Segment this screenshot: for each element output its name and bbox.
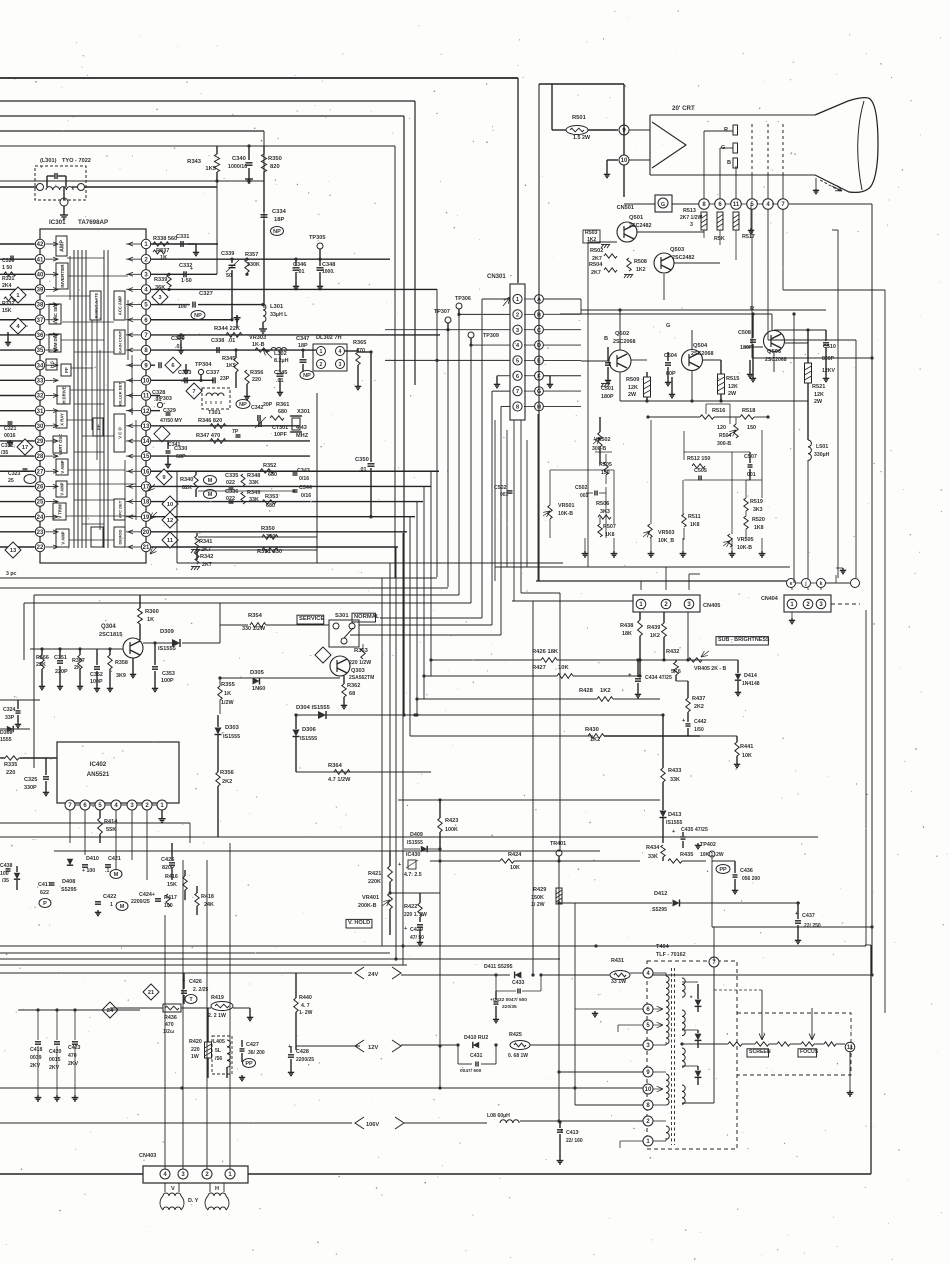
svg-text:IC430: IC430 — [406, 852, 420, 858]
svg-text:C348: C348 — [322, 262, 335, 268]
svg-text:D412: D412 — [654, 891, 667, 897]
svg-text:35: 35 — [37, 348, 44, 354]
svg-text:180P: 180P — [601, 394, 614, 400]
svg-text:C508: C508 — [738, 330, 751, 336]
svg-text:1K: 1K — [224, 691, 231, 697]
svg-text:47/ 50: 47/ 50 — [410, 935, 424, 941]
svg-text:13: 13 — [10, 548, 17, 554]
svg-text:4: 4 — [339, 349, 342, 355]
svg-text:24K: 24K — [204, 902, 214, 908]
svg-text:C504: C504 — [664, 353, 677, 359]
svg-text:C335: C335 — [225, 473, 238, 479]
svg-text:GAIN CONT: GAIN CONT — [118, 330, 123, 353]
svg-text:V C O: V C O — [118, 427, 123, 439]
svg-text:D303: D303 — [225, 725, 240, 731]
svg-text:R501: R501 — [572, 115, 587, 121]
svg-text:CN404: CN404 — [761, 596, 778, 602]
svg-text:D309: D309 — [160, 629, 175, 635]
svg-text:2KV: 2KV — [49, 1065, 60, 1071]
svg-text:D306: D306 — [302, 727, 317, 733]
svg-text:1.5 2W: 1.5 2W — [573, 135, 591, 141]
svg-text:17: 17 — [22, 445, 28, 451]
svg-text:R343: R343 — [187, 159, 202, 165]
svg-text:D411 S5295: D411 S5295 — [484, 964, 513, 970]
svg-text:C502: C502 — [575, 485, 588, 491]
svg-text:0015: 0015 — [49, 1057, 61, 1063]
svg-text:NORMAL: NORMAL — [354, 614, 380, 620]
svg-text:220K: 220K — [368, 879, 381, 885]
svg-text:32: 32 — [37, 394, 44, 400]
svg-text:SUB - BRIGHTNESS: SUB - BRIGHTNESS — [718, 637, 770, 643]
svg-text:INVERTER: INVERTER — [60, 264, 65, 288]
svg-text:D413: D413 — [668, 812, 681, 818]
svg-text:2SC2068: 2SC2068 — [613, 339, 635, 345]
svg-text:15: 15 — [143, 454, 150, 460]
svg-text:470: 470 — [68, 1053, 77, 1059]
svg-text:11: 11 — [847, 1045, 854, 1051]
svg-text:C344: C344 — [299, 485, 312, 491]
svg-text:VR303: VR303 — [249, 335, 266, 341]
svg-text:1K-B: 1K-B — [252, 342, 265, 348]
svg-text:C435 47/25: C435 47/25 — [681, 827, 708, 833]
svg-text:0/16: 0/16 — [301, 493, 311, 499]
svg-text:21: 21 — [148, 990, 155, 996]
svg-text:C505: C505 — [694, 468, 707, 474]
svg-text:1N60: 1N60 — [252, 686, 265, 692]
svg-text:100P: 100P — [161, 678, 174, 684]
svg-text:1: 1 — [110, 902, 113, 908]
svg-text:13: 13 — [143, 424, 150, 430]
svg-text:2KV: 2KV — [68, 1061, 79, 1067]
svg-text:R356: R356 — [250, 370, 263, 376]
svg-text:33K: 33K — [670, 777, 680, 783]
svg-text:C438: C438 — [0, 863, 13, 869]
svg-text:R350: R350 — [261, 526, 275, 532]
svg-text:R424: R424 — [508, 852, 522, 858]
svg-text:C413: C413 — [566, 1130, 579, 1136]
svg-text:C333: C333 — [178, 370, 191, 376]
svg-text:C433: C433 — [512, 980, 525, 986]
svg-text:R355: R355 — [221, 682, 236, 688]
svg-text:KILLER DET: KILLER DET — [118, 382, 123, 406]
svg-text:2KV: 2KV — [30, 1063, 41, 1069]
svg-text:R520: R520 — [752, 517, 765, 523]
svg-text:23: 23 — [37, 530, 44, 536]
svg-text:D305: D305 — [250, 670, 265, 676]
svg-text:220: 220 — [191, 1047, 200, 1053]
svg-text:2W: 2W — [814, 399, 823, 405]
svg-text:2K7: 2K7 — [591, 270, 601, 276]
svg-text:R439: R439 — [647, 625, 660, 631]
svg-text:25: 25 — [37, 500, 44, 506]
svg-text:C422: C422 — [103, 894, 116, 900]
svg-text:12K: 12K — [814, 392, 824, 398]
svg-text:PP: PP — [719, 867, 727, 873]
svg-text:11: 11 — [167, 538, 174, 544]
svg-text:12K: 12K — [728, 384, 738, 390]
svg-text:TLF - 70162: TLF - 70162 — [656, 952, 686, 958]
svg-text:R416: R416 — [165, 874, 178, 880]
svg-text:TP402: TP402 — [700, 842, 716, 848]
svg-text:R357: R357 — [245, 252, 258, 258]
svg-text:ACC AMP: ACC AMP — [118, 296, 123, 316]
svg-text:12K: 12K — [628, 385, 638, 391]
svg-text:R429: R429 — [533, 887, 546, 893]
svg-text:0047/ 500: 0047/ 500 — [460, 1068, 482, 1074]
svg-text:820: 820 — [270, 164, 280, 170]
svg-text:18P: 18P — [298, 343, 308, 349]
svg-text:12KV: 12KV — [822, 368, 836, 374]
svg-text:2. 2 1W: 2. 2 1W — [208, 1013, 226, 1019]
svg-text:TP309: TP309 — [483, 333, 499, 339]
svg-text:022: 022 — [226, 480, 235, 486]
svg-text:TA7698AP: TA7698AP — [78, 219, 108, 226]
svg-text:C331: C331 — [176, 234, 189, 240]
svg-text:Q501: Q501 — [629, 215, 644, 221]
svg-text:R358: R358 — [115, 660, 128, 666]
svg-text:R365: R365 — [353, 340, 366, 346]
svg-text:M: M — [114, 872, 119, 878]
svg-text:22: 22 — [37, 545, 44, 551]
svg-text:R509: R509 — [626, 377, 639, 383]
svg-text:G: G — [666, 323, 670, 329]
svg-text:L405: L405 — [213, 1039, 225, 1045]
svg-text:k: k — [820, 581, 823, 587]
svg-text:R421: R421 — [368, 871, 381, 877]
svg-text:4. 7: 4. 7 — [301, 1003, 310, 1009]
svg-text:C336: C336 — [225, 489, 238, 495]
svg-text:0016: 0016 — [4, 433, 16, 439]
svg-text:100K: 100K — [445, 827, 458, 833]
svg-text:e: e — [790, 581, 793, 587]
svg-text:IS1555: IS1555 — [223, 734, 240, 740]
svg-text:3K3: 3K3 — [753, 507, 763, 513]
svg-text:M: M — [208, 478, 213, 484]
svg-text:V AMP: V AMP — [60, 482, 65, 495]
svg-text:TP304: TP304 — [195, 362, 212, 368]
svg-text:120: 120 — [717, 425, 726, 431]
svg-text:C326: C326 — [171, 336, 184, 342]
svg-text:2W: 2W — [728, 391, 737, 397]
svg-text:R356: R356 — [220, 770, 235, 776]
svg-text:3K9: 3K9 — [116, 673, 126, 679]
svg-text:NP: NP — [273, 229, 281, 235]
svg-text:R503: R503 — [585, 230, 598, 236]
svg-text:82K: 82K — [182, 485, 192, 491]
svg-text:R504: R504 — [719, 433, 732, 439]
svg-text:.1: .1 — [105, 868, 109, 874]
svg-text:10: 10 — [621, 158, 628, 164]
svg-text:10PF: 10PF — [274, 432, 288, 438]
svg-text:3K3: 3K3 — [600, 509, 610, 515]
svg-text:IS1555: IS1555 — [300, 736, 317, 742]
svg-text:4.7 1/2W: 4.7 1/2W — [328, 777, 351, 783]
svg-text:300-B: 300-B — [717, 441, 731, 447]
svg-text:10: 10 — [143, 378, 150, 384]
svg-text:R350: R350 — [268, 156, 282, 162]
svg-text:C343: C343 — [297, 468, 310, 474]
svg-text:C423: C423 — [68, 1045, 81, 1051]
svg-text:10: 10 — [167, 502, 173, 508]
svg-text:R515: R515 — [726, 376, 739, 382]
svg-text:19: 19 — [143, 515, 150, 521]
svg-text:C442: C442 — [694, 719, 707, 725]
svg-text:D408: D408 — [62, 879, 75, 885]
svg-text:001: 001 — [747, 472, 756, 478]
svg-text:24: 24 — [37, 515, 44, 521]
svg-text:20P: 20P — [263, 402, 273, 408]
svg-text:18P: 18P — [274, 217, 284, 223]
svg-text:5L: 5L — [215, 1048, 222, 1054]
svg-text:G: G — [661, 202, 665, 208]
svg-text:R347 470: R347 470 — [196, 433, 220, 439]
svg-text:0. 68 1W: 0. 68 1W — [508, 1053, 528, 1059]
svg-text:R426 18K: R426 18K — [532, 649, 559, 655]
svg-text:24: 24 — [107, 1008, 114, 1014]
svg-text:C342: C342 — [251, 405, 264, 411]
svg-text:C339: C339 — [221, 251, 234, 257]
svg-text:180P: 180P — [740, 345, 753, 351]
svg-text:IS1555: IS1555 — [407, 840, 423, 846]
svg-text:220 1/2W: 220 1/2W — [349, 660, 371, 666]
svg-text:55K: 55K — [106, 827, 116, 833]
svg-text:680: 680 — [278, 409, 287, 415]
svg-text:R516: R516 — [712, 408, 725, 414]
svg-text:C322: C322 — [1, 443, 14, 449]
svg-text:TYO - 7022: TYO - 7022 — [62, 158, 91, 164]
svg-text:R512 150: R512 150 — [687, 456, 710, 462]
svg-text:R519: R519 — [750, 499, 763, 505]
svg-text:/35: /35 — [2, 878, 9, 884]
svg-text:C417: C417 — [38, 882, 51, 888]
svg-text:1555: 1555 — [0, 737, 12, 743]
svg-text:8.2µH: 8.2µH — [274, 358, 289, 364]
svg-text:15K: 15K — [167, 882, 177, 888]
svg-text:C502: C502 — [494, 485, 507, 491]
svg-text:TP305: TP305 — [309, 235, 325, 241]
svg-text:+ 100: + 100 — [82, 868, 95, 874]
svg-text:220: 220 — [252, 377, 261, 383]
svg-text:470: 470 — [165, 1022, 174, 1028]
svg-text:AMP: AMP — [60, 240, 66, 252]
svg-text:TP303: TP303 — [156, 396, 172, 402]
svg-text:2K4: 2K4 — [2, 283, 12, 289]
svg-text:2. 2/25: 2. 2/25 — [193, 987, 209, 993]
svg-text:42: 42 — [37, 242, 44, 248]
svg-text:20: 20 — [143, 530, 150, 536]
svg-text:C327: C327 — [199, 291, 213, 297]
svg-text:16: 16 — [143, 469, 150, 475]
svg-text:R340: R340 — [180, 477, 193, 483]
svg-text:150: 150 — [747, 425, 756, 431]
svg-text:R506: R506 — [596, 501, 609, 507]
svg-text:X301: X301 — [297, 409, 310, 415]
svg-text:C323: C323 — [8, 471, 21, 477]
svg-text:NP: NP — [194, 313, 202, 319]
svg-text:D308: D308 — [0, 730, 13, 736]
svg-text:R513: R513 — [683, 208, 696, 214]
svg-text:2K7 1/2W: 2K7 1/2W — [680, 215, 703, 221]
svg-text:11: 11 — [143, 394, 150, 400]
svg-text:VR505: VR505 — [737, 537, 753, 543]
svg-text:D410 RU2: D410 RU2 — [464, 1035, 488, 1041]
svg-text:/56: /56 — [215, 1056, 222, 1062]
svg-text:C424+: C424+ — [139, 892, 155, 898]
svg-text:S5295: S5295 — [652, 907, 667, 913]
svg-text:R431: R431 — [611, 958, 624, 964]
svg-text:C437: C437 — [802, 913, 815, 919]
svg-text:21: 21 — [143, 545, 150, 551]
svg-text:330µH: 330µH — [814, 452, 830, 458]
svg-text:C353: C353 — [162, 671, 175, 677]
svg-text:Q304: Q304 — [101, 624, 116, 630]
svg-text:12: 12 — [167, 518, 173, 524]
svg-text:D304 IS1555: D304 IS1555 — [296, 705, 331, 711]
svg-text:DL302 7H: DL302 7H — [316, 335, 342, 341]
svg-text:2: 2 — [516, 312, 519, 318]
svg-text:39: 39 — [37, 288, 44, 294]
svg-text:R502: R502 — [590, 248, 603, 254]
svg-text:2200/25: 2200/25 — [296, 1057, 314, 1063]
svg-text:40: 40 — [37, 272, 44, 278]
svg-text:C350: C350 — [355, 457, 369, 463]
svg-text:33 1W: 33 1W — [611, 979, 626, 985]
svg-text:34: 34 — [37, 363, 44, 369]
svg-text:H: H — [215, 1186, 219, 1192]
svg-text:106V: 106V — [366, 1122, 379, 1128]
svg-text:(L301): (L301) — [40, 158, 57, 164]
svg-text:R362: R362 — [347, 683, 360, 689]
svg-text:R511: R511 — [688, 514, 701, 520]
svg-text:R346 820: R346 820 — [198, 418, 222, 424]
svg-text:10K-B: 10K-B — [737, 545, 752, 551]
svg-text:33K: 33K — [648, 854, 658, 860]
svg-text:47/50 MY: 47/50 MY — [160, 418, 183, 424]
svg-text:R423: R423 — [445, 818, 458, 824]
svg-text:V AMP: V AMP — [61, 531, 66, 544]
svg-text:VERT OSC: VERT OSC — [58, 434, 63, 455]
svg-text:R433: R433 — [668, 768, 681, 774]
svg-text:DEMOD: DEMOD — [118, 529, 123, 544]
svg-text:R428: R428 — [579, 688, 594, 694]
svg-text:1/50: 1/50 — [694, 727, 704, 733]
svg-text:R440: R440 — [299, 995, 312, 1001]
svg-text:R364: R364 — [328, 763, 343, 769]
svg-text:4.7: 2.5: 4.7: 2.5 — [404, 872, 422, 878]
svg-text:2W: 2W — [628, 392, 637, 398]
svg-text:X RAY: X RAY — [60, 413, 65, 426]
svg-text:R437: R437 — [692, 696, 705, 702]
svg-text:1K8: 1K8 — [754, 525, 764, 531]
svg-text:R338 560: R338 560 — [153, 236, 177, 242]
svg-text:1N4148: 1N4148 — [742, 681, 760, 687]
svg-text:C340: C340 — [232, 156, 246, 162]
svg-text:R518: R518 — [742, 408, 755, 414]
svg-text:1: 1 — [320, 349, 323, 355]
svg-text:2200/25: 2200/25 — [131, 899, 150, 905]
svg-text:R432: R432 — [666, 649, 679, 655]
svg-text:APC DET: APC DET — [118, 500, 123, 518]
svg-text:3: 3 — [690, 222, 693, 228]
svg-text:1K: 1K — [147, 617, 154, 623]
svg-text:B: B — [604, 336, 608, 342]
svg-text:36/ 200: 36/ 200 — [248, 1050, 265, 1056]
svg-text:R517: R517 — [742, 234, 755, 240]
svg-text:10K: 10K — [510, 865, 520, 871]
svg-text:24V: 24V — [368, 972, 378, 978]
svg-text:100: 100 — [0, 871, 9, 877]
svg-text:12V: 12V — [368, 1045, 378, 1051]
svg-text:1K2: 1K2 — [650, 633, 660, 639]
svg-text:FOCUS: FOCUS — [800, 1049, 819, 1055]
svg-text:C330: C330 — [174, 446, 187, 452]
svg-text:IS1555: IS1555 — [666, 820, 683, 826]
svg-text:.01: .01 — [359, 467, 367, 473]
svg-text:VR501: VR501 — [558, 503, 574, 509]
svg-text:CN301: CN301 — [487, 274, 506, 280]
svg-text:68: 68 — [349, 691, 355, 697]
svg-text:C418: C418 — [30, 1047, 43, 1053]
svg-text:C434 47/25: C434 47/25 — [645, 675, 672, 681]
svg-text:D409: D409 — [410, 832, 423, 838]
svg-text:C426: C426 — [189, 979, 202, 985]
svg-text:3 pc: 3 pc — [6, 571, 16, 577]
svg-text:R339: R339 — [154, 277, 167, 283]
svg-text:H DRIVE: H DRIVE — [62, 386, 67, 403]
svg-text:11: 11 — [733, 202, 740, 208]
svg-text:1K5: 1K5 — [205, 166, 216, 172]
svg-text:L301: L301 — [270, 304, 284, 310]
svg-text:SERVICE: SERVICE — [299, 616, 324, 622]
svg-text:T404: T404 — [656, 944, 670, 950]
svg-text:CN403: CN403 — [139, 1153, 156, 1159]
svg-text:C427: C427 — [246, 1042, 259, 1048]
svg-text:10: 10 — [645, 1087, 652, 1093]
svg-text:D410: D410 — [86, 856, 99, 862]
svg-text:26: 26 — [37, 485, 44, 491]
svg-text:R345: R345 — [222, 356, 235, 362]
svg-text:C420: C420 — [49, 1049, 62, 1055]
svg-text:NP: NP — [303, 373, 311, 379]
svg-text:R335: R335 — [4, 762, 17, 768]
svg-text:15K: 15K — [2, 308, 12, 314]
svg-text:622: 622 — [40, 890, 49, 896]
svg-text:IC402: IC402 — [90, 761, 107, 768]
svg-text:14: 14 — [143, 439, 150, 445]
svg-text:18K: 18K — [622, 631, 632, 637]
svg-text:R422: R422 — [404, 904, 417, 910]
svg-text:0039: 0039 — [30, 1055, 42, 1061]
svg-text:1 50: 1 50 — [2, 265, 12, 271]
svg-text:1000.: 1000. — [322, 269, 335, 275]
svg-text:2K2: 2K2 — [222, 779, 232, 785]
svg-text:33K: 33K — [249, 480, 259, 486]
svg-text:+: + — [190, 266, 193, 272]
svg-text:22/ 250: 22/ 250 — [804, 923, 821, 929]
svg-text:27: 27 — [37, 469, 44, 475]
svg-text:2SC2482: 2SC2482 — [672, 255, 694, 261]
svg-text:50: 50 — [226, 273, 232, 279]
svg-text:C324: C324 — [3, 707, 16, 713]
svg-text:TP306: TP306 — [455, 296, 471, 302]
svg-text:L501: L501 — [816, 444, 828, 450]
svg-text:R441: R441 — [740, 744, 753, 750]
svg-text:D414: D414 — [744, 673, 757, 679]
svg-text:R366: R366 — [36, 655, 49, 661]
svg-text:CN501: CN501 — [617, 205, 634, 211]
svg-text:12: 12 — [143, 409, 150, 415]
svg-text:R438: R438 — [620, 623, 633, 629]
